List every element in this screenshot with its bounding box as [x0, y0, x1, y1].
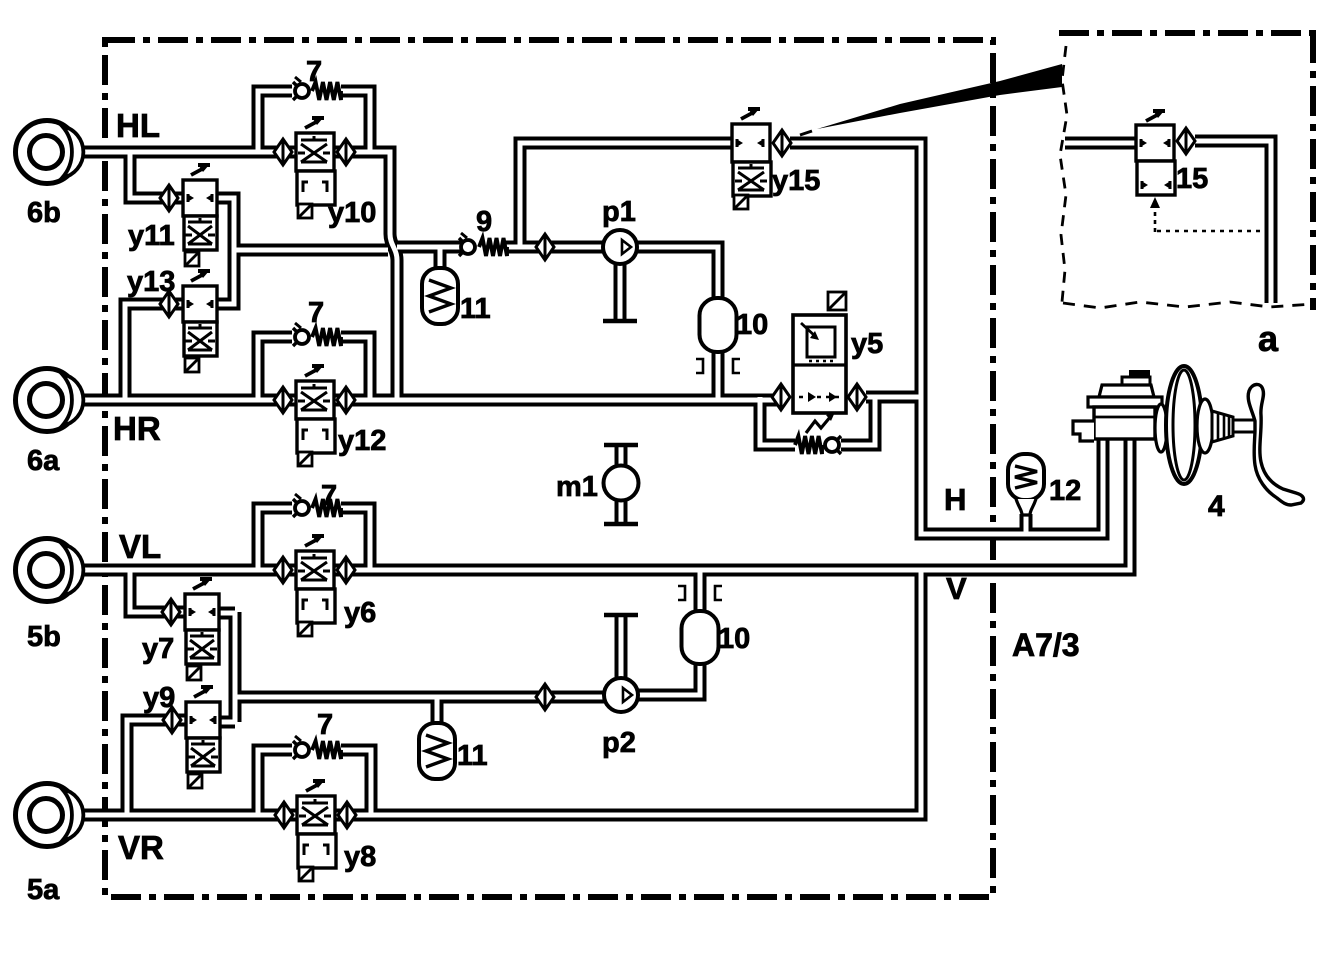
- pump p2: [604, 678, 638, 712]
- svg-text:y7: y7: [142, 633, 174, 665]
- wire HR line (wheel 6a to y5) (inner channel): [83, 398, 782, 403]
- wire y15 outlet / H supply riser to master cylinder: [790, 143, 1103, 534]
- solenoid valve y11: [160, 165, 217, 266]
- svg-text:7: 7: [317, 709, 333, 741]
- wire y11 outlet: [217, 198, 234, 250]
- check valve 7 (HR bypass): [293, 323, 341, 346]
- check valve 7 (VR bypass): [293, 736, 341, 759]
- wire check-7 HL bypass loop (inner channel): [258, 91, 370, 152]
- svg-text:m1: m1: [556, 471, 598, 503]
- wire y7/y9 outlet manifold: [219, 612, 235, 722]
- inset box a: torn left edge: [1060, 46, 1067, 302]
- check valve 7 (VL bypass): [293, 494, 341, 517]
- wire valve 15 outlet line (inset) (inner channel): [1195, 141, 1271, 303]
- p2 shaft end: [604, 613, 638, 618]
- wire m1 motor shaft upper: [615, 447, 628, 467]
- wire y9 branch from VR: [127, 720, 187, 815]
- wire check-7 HL bypass loop: [258, 91, 370, 152]
- wire p2 outlet to damper 10V (inner channel): [638, 662, 700, 695]
- wire valve 15 inlet line (inset): [1065, 137, 1136, 150]
- svg-text:y9: y9: [143, 682, 175, 714]
- wheel HR (6a): [16, 369, 79, 432]
- wheel HL (6b): [16, 121, 79, 184]
- svg-text:H: H: [944, 482, 966, 517]
- wire m1 motor shaft upper (inner channel): [619, 447, 624, 467]
- svg-text:4: 4: [1208, 490, 1225, 523]
- wire VL line (wheel 5b to master cylinder V port): [83, 436, 1130, 570]
- wire y11 branch from HL (inner channel): [130, 152, 183, 198]
- y5 bypass check valve with spring: [795, 436, 841, 454]
- wire damper 10H to HR line (inner channel): [716, 350, 721, 400]
- solenoid valve y15: [732, 109, 791, 209]
- wire damper 10V to VL line (inner channel): [698, 570, 703, 615]
- wire HR line (wheel 6a to y5): [83, 394, 782, 407]
- accumulator 12: [1008, 454, 1044, 500]
- wire y13 branch from HR: [125, 304, 183, 400]
- wire y7 branch from VL: [130, 570, 185, 612]
- svg-text:5b: 5b: [27, 621, 61, 653]
- wire p1 motor shaft: [614, 264, 627, 319]
- wire valve 15 inlet line (inset) (inner channel): [1065, 141, 1136, 146]
- svg-text:y8: y8: [344, 841, 376, 873]
- svg-text:y5: y5: [851, 328, 883, 360]
- wire V return line to pump p2: [235, 691, 604, 704]
- accumulator 11 (H circuit): [422, 268, 458, 324]
- inset box a: torn bottom edge: [1063, 302, 1313, 308]
- wire damper 10V to VL line: [694, 570, 707, 615]
- wire accumulator 11H stem (inner channel): [438, 247, 443, 272]
- wire accumulator 11V stem: [431, 697, 444, 727]
- svg-text:7: 7: [321, 480, 337, 512]
- svg-text:V: V: [946, 571, 967, 606]
- svg-text:a: a: [1258, 318, 1279, 359]
- damper 10 brackets (H): [696, 359, 703, 373]
- wire valve 15 outlet line (inset): [1195, 141, 1271, 303]
- wire y5 outlet: [866, 391, 921, 404]
- wire p2 outlet to damper 10V: [638, 662, 700, 695]
- svg-text:y11: y11: [128, 220, 175, 252]
- wire p2 motor shaft (inner channel): [619, 617, 624, 678]
- wire check-7 VR bypass loop (inner channel): [258, 750, 371, 815]
- wire VR line (wheel 5a, riser to VL line): [83, 570, 921, 815]
- svg-text:VR: VR: [118, 829, 164, 866]
- wheel VL (5b): [16, 539, 79, 602]
- main unit boundary A7/3 (dash-dot frame): [105, 40, 993, 897]
- pump p1: [603, 230, 637, 264]
- wire y11 branch from HL: [130, 152, 183, 198]
- wire y13 branch from HR (inner channel): [125, 304, 183, 400]
- wire check-7 VR bypass loop: [258, 750, 371, 815]
- wire HL line (wheel 6b to y10 and down to HR line, with jog) (inner channel): [83, 152, 397, 400]
- wire VL line (wheel 5b to master cylinder V port) (inner channel): [83, 436, 1130, 570]
- solenoid valve y9: [163, 687, 220, 788]
- solenoid valve y12: [274, 366, 355, 466]
- wire V return line to pump p2 (inner channel): [235, 695, 604, 700]
- m1 shaft ends: [604, 443, 638, 448]
- proportional valve y5: [772, 292, 866, 433]
- wire y5 bypass loop (inner channel): [760, 397, 875, 445]
- wire p1 outlet to damper 10H: [637, 247, 718, 300]
- check valve 7 (HL bypass): [293, 77, 341, 100]
- wire y15 suction riser: [520, 143, 732, 247]
- wire p1 motor shaft (inner channel): [618, 264, 623, 319]
- solenoid valve y6: [274, 536, 355, 636]
- wire check-7 HR bypass loop (inner channel): [258, 337, 370, 400]
- wire p1 outlet to damper 10H (inner channel): [637, 247, 718, 300]
- wire y7/y9 outlet manifold (inner channel): [219, 612, 235, 722]
- damper 10 (V circuit): [682, 611, 719, 664]
- svg-text:A7/3: A7/3: [1012, 627, 1080, 663]
- wire y15 outlet / H supply riser to master cylinder (inner channel): [790, 143, 1103, 534]
- wire check-7 VL bypass loop (inner channel): [258, 508, 370, 570]
- damper 10 brackets (V): [678, 586, 685, 600]
- svg-text:y6: y6: [344, 597, 376, 629]
- wire accumulator 12 stem: [1020, 514, 1033, 534]
- wire check-7 HR bypass loop: [258, 337, 370, 400]
- wire accumulator 12 stem (inner channel): [1024, 514, 1029, 534]
- wire VR line (wheel 5a, riser to VL line) (inner channel): [83, 570, 921, 815]
- coupling diamond at p2 suction: [536, 684, 554, 710]
- wire damper 10H to HR line: [712, 350, 725, 400]
- svg-text:15: 15: [1176, 163, 1208, 195]
- coupling diamond at p1 suction: [536, 234, 554, 260]
- wire HL line (wheel 6b to y10 and down to HR line, with jog): [83, 152, 397, 400]
- solenoid valve y8: [275, 781, 356, 881]
- solenoid valve 15 (inset): [1136, 111, 1195, 195]
- wire y13 outlet: [217, 250, 234, 304]
- valve 15 pilot dotted lines: [1154, 206, 1157, 232]
- accumulator 11 (V circuit): [419, 723, 455, 779]
- motor m1: [604, 466, 639, 501]
- svg-text:5a: 5a: [27, 874, 60, 906]
- svg-text:y10: y10: [328, 197, 376, 229]
- svg-text:y13: y13: [127, 266, 175, 298]
- wire p2 motor shaft: [615, 617, 628, 678]
- svg-text:6b: 6b: [27, 197, 61, 229]
- master cylinder, booster and pedal (4): [1073, 366, 1303, 505]
- svg-text:7: 7: [306, 56, 322, 88]
- svg-text:7: 7: [308, 297, 324, 329]
- svg-text:12: 12: [1049, 475, 1081, 507]
- wire m1 motor shaft lower: [615, 500, 628, 522]
- svg-text:9: 9: [476, 206, 492, 238]
- check valve 9: [459, 233, 507, 256]
- wire y15 suction riser (inner channel): [520, 143, 732, 247]
- svg-text:10: 10: [736, 309, 768, 341]
- svg-text:HR: HR: [113, 410, 161, 447]
- wire y9 branch from VR (inner channel): [127, 720, 187, 815]
- pointer arrow to inset a: [817, 64, 1062, 129]
- svg-text:p1: p1: [602, 196, 636, 228]
- inset box a: top dash-dot edge: [1059, 30, 1316, 36]
- wire accumulator 11H stem: [434, 247, 447, 272]
- svg-text:6a: 6a: [27, 445, 60, 477]
- svg-text:HL: HL: [116, 107, 160, 144]
- wire y7 branch from VL (inner channel): [130, 570, 185, 612]
- wire y5 outlet (inner channel): [866, 395, 921, 400]
- damper 10 (H circuit): [700, 298, 737, 352]
- wire y13 outlet (inner channel): [217, 250, 234, 304]
- wire y11 outlet (inner channel): [217, 198, 234, 250]
- svg-text:y15: y15: [772, 165, 820, 197]
- svg-text:11: 11: [457, 740, 488, 772]
- svg-text:11: 11: [460, 293, 491, 325]
- wire check-7 VL bypass loop: [258, 508, 370, 570]
- solenoid valve y13: [160, 271, 217, 372]
- solenoid valve y7: [162, 579, 219, 680]
- p1 shaft end: [603, 319, 637, 324]
- inset box a: right dash-dot edge: [1310, 33, 1316, 310]
- svg-text:p2: p2: [602, 727, 636, 759]
- wire accumulator 11V stem (inner channel): [435, 697, 440, 727]
- svg-text:y12: y12: [338, 425, 386, 457]
- wire H return line to pump p1 (inner channel): [234, 247, 604, 250]
- wheel VR (5a): [16, 784, 79, 847]
- wire m1 motor shaft lower (inner channel): [619, 500, 624, 522]
- solenoid valve y10: [274, 118, 355, 218]
- wire H return line to pump p1: [234, 247, 604, 250]
- svg-text:10: 10: [718, 623, 750, 655]
- wire y5 bypass loop: [760, 397, 875, 445]
- svg-text:VL: VL: [119, 528, 161, 565]
